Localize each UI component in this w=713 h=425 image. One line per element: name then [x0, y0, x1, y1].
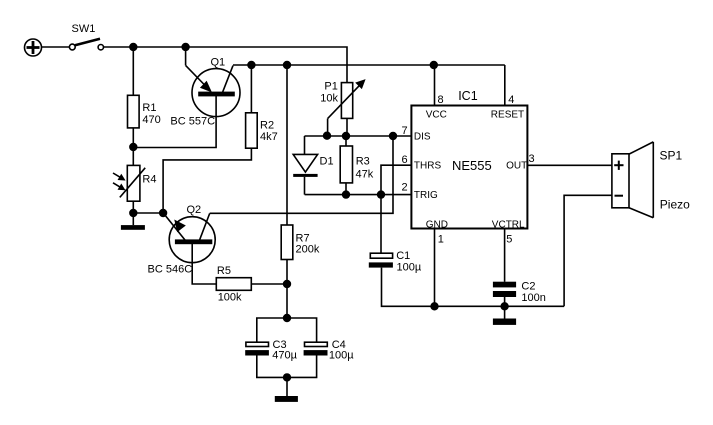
svg-text:VCC: VCC: [426, 110, 447, 121]
resistor R3: [340, 136, 352, 195]
svg-text:Q1: Q1: [211, 56, 226, 68]
wire Q2 collector to DIS: [210, 136, 393, 213]
wire C1 to bottom rail: [382, 268, 565, 307]
wire rail to R2: [250, 65, 252, 113]
wire R4 to ground node: [132, 201, 134, 213]
svg-text:OUT: OUT: [506, 161, 527, 172]
node supply-R1: [130, 44, 137, 51]
svg-text:10k: 10k: [320, 92, 338, 104]
svg-text:Q2: Q2: [187, 204, 202, 216]
wire battery to SW1: [42, 46, 70, 48]
node C2-rail: [501, 303, 508, 310]
battery plus terminal: [25, 39, 42, 56]
svg-text:IC1: IC1: [458, 89, 478, 103]
ground below C2: [493, 306, 516, 325]
speaker SP1: [612, 142, 653, 218]
wire DIS line: [305, 135, 412, 137]
svg-text:D1: D1: [320, 155, 334, 167]
svg-text:TRIG: TRIG: [414, 190, 438, 201]
svg-text:100k: 100k: [218, 291, 242, 303]
wire TRIG line: [305, 194, 412, 196]
node C3/C4 bottom: [284, 374, 291, 381]
capacitor C3: [245, 342, 269, 355]
wire R5 to node B: [251, 283, 287, 285]
svg-text:7: 7: [402, 125, 408, 137]
node P1-R3-DIS: [343, 133, 350, 140]
wire supply to R1: [132, 47, 134, 95]
svg-text:R4: R4: [142, 174, 156, 186]
node R3-TRIG: [343, 191, 350, 198]
svg-text:200k: 200k: [296, 243, 320, 255]
resistor R5: [216, 278, 251, 291]
resistor R2: [246, 113, 258, 148]
node R4-ground: [130, 210, 137, 217]
svg-text:470µ: 470µ: [272, 349, 297, 361]
node rail-R7: [284, 62, 291, 69]
svg-text:47k: 47k: [356, 169, 374, 181]
svg-text:Piezo: Piezo: [660, 197, 690, 211]
node GND-rail: [431, 303, 438, 310]
svg-text:100n: 100n: [521, 292, 545, 304]
wire R7 to node B: [286, 260, 288, 319]
svg-text:VCTRL: VCTRL: [492, 220, 525, 231]
LDR R4: [113, 165, 145, 201]
svg-text:SW1: SW1: [72, 23, 96, 35]
capacitor C1: [369, 253, 393, 267]
wire C3/C4 bottom rail: [257, 356, 317, 378]
node Q2col-DIS: [390, 133, 397, 140]
wire pin8 VCC: [434, 65, 436, 106]
wire TRIG node to C1: [380, 195, 382, 254]
svg-text:THRS: THRS: [414, 161, 442, 172]
svg-text:4k7: 4k7: [260, 131, 278, 143]
svg-text:2: 2: [402, 182, 408, 194]
wire SW1 to P1 top corner (supply rail): [104, 47, 348, 83]
node rail-pin8: [430, 62, 437, 69]
svg-text:GND: GND: [426, 220, 448, 231]
svg-text:R2: R2: [260, 120, 274, 132]
resistor R7: [281, 225, 293, 260]
node B (R5/R7/C3C4): [284, 281, 291, 288]
node rail-R2: [248, 62, 255, 69]
svg-text:4: 4: [508, 94, 514, 106]
svg-text:100µ: 100µ: [397, 261, 422, 273]
transistor Q2: [165, 213, 217, 284]
capacitor C2: [493, 282, 516, 307]
ground below R4: [121, 213, 145, 230]
IC IC1 NE555 box: [411, 106, 527, 229]
resistor R1: [128, 95, 140, 128]
wire OUT pin3 to speaker: [527, 164, 612, 166]
svg-text:5: 5: [506, 234, 512, 246]
switch SW1: [69, 39, 103, 50]
node supply-Q1 emitter: [182, 44, 189, 51]
wire speaker minus to bottom rail: [564, 195, 612, 306]
wire R1 to node A: [132, 128, 134, 165]
svg-text:C2: C2: [521, 281, 535, 293]
svg-text:6: 6: [402, 154, 408, 166]
wire pin1 GND: [434, 229, 436, 307]
ground below C3/C4: [275, 377, 298, 402]
svg-text:P1: P1: [324, 80, 337, 92]
svg-text:100µ: 100µ: [329, 349, 354, 361]
wire rail to R7: [286, 65, 288, 225]
wire P1 to DIS line: [346, 118, 348, 136]
svg-text:NE555: NE555: [452, 158, 492, 173]
svg-text:8: 8: [438, 94, 444, 106]
svg-text:470: 470: [142, 114, 160, 126]
node C1-TRIG: [378, 191, 385, 198]
svg-text:R3: R3: [356, 155, 370, 167]
svg-text:R5: R5: [217, 265, 231, 277]
svg-text:RESET: RESET: [491, 110, 524, 121]
node A (R1/R4/Q1 base): [130, 144, 137, 151]
node wiper-DIS: [324, 132, 331, 139]
node Q2 emitter: [160, 210, 167, 217]
wire pin5 VCTRL to C2: [504, 229, 506, 282]
diode D1: [293, 136, 317, 195]
wire ground node to Q2 emitter node: [133, 212, 163, 214]
wire C3/C4 top rail: [257, 318, 317, 342]
transistor Q1: [133, 47, 240, 148]
svg-text:BC 557C: BC 557C: [170, 116, 215, 128]
wire pin4 RESET: [504, 65, 506, 106]
svg-text:R1: R1: [142, 102, 156, 114]
svg-text:3: 3: [529, 153, 535, 165]
svg-text:SP1: SP1: [660, 149, 683, 163]
wire Q1 collector rail: [233, 64, 505, 66]
svg-text:BC 546C: BC 546C: [148, 264, 193, 276]
potentiometer P1: [328, 80, 365, 136]
wire R2 to Q2 emitter node: [163, 148, 251, 213]
node C3/C4 top: [284, 315, 291, 322]
capacitor C4: [304, 342, 328, 355]
wire THRS to C1 column: [381, 165, 411, 194]
svg-text:1: 1: [438, 234, 444, 246]
svg-text:DIS: DIS: [414, 132, 431, 143]
